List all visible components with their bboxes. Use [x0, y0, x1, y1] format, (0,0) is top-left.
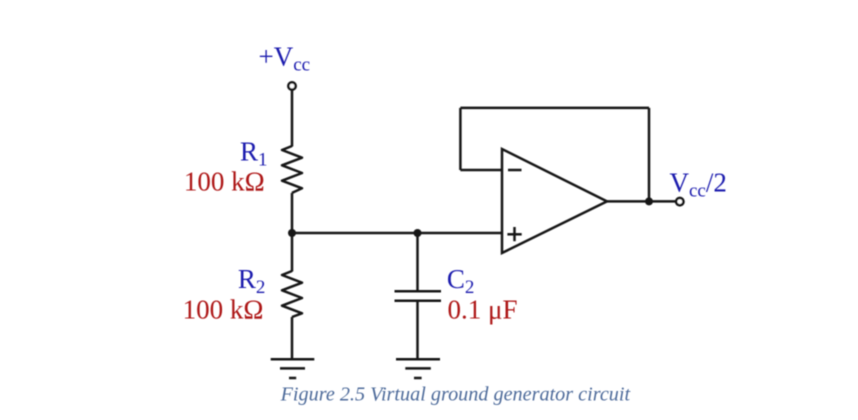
wire C2 to ground	[416, 301, 419, 359]
feedback wire right vertical	[648, 108, 651, 201]
svg-text:R1: R1	[240, 137, 268, 171]
wire Vcc terminal to R1	[291, 90, 294, 146]
svg-text:100 kΩ: 100 kΩ	[183, 294, 264, 324]
op-amp inverting input minus sign	[508, 169, 522, 172]
resistor R1	[282, 146, 302, 193]
svg-text:Vcc/2: Vcc/2	[670, 167, 727, 201]
svg-text:C2: C2	[447, 264, 475, 298]
svg-text:Figure 2.5 Virtual ground gene: Figure 2.5 Virtual ground generator circ…	[280, 383, 632, 405]
feedback wire left vertical	[459, 108, 462, 170]
resistor R2	[282, 271, 302, 317]
ground symbol at C2	[396, 359, 440, 378]
terminal +Vcc	[288, 82, 295, 89]
wire node A to R2	[291, 233, 294, 272]
svg-text:R2: R2	[238, 264, 266, 298]
wire node B to C2	[416, 233, 419, 291]
wire R2 to ground	[291, 317, 294, 359]
terminal Vcc/2 output	[676, 198, 683, 205]
wire R1 to node A	[291, 193, 294, 233]
wire node A to op-amp non-inverting input	[292, 232, 502, 235]
wire op-amp output	[607, 200, 676, 203]
capacitor C2	[395, 291, 442, 301]
svg-text:100 kΩ: 100 kΩ	[184, 167, 265, 197]
node A junction dot	[288, 229, 296, 237]
op-amp non-inverting input plus sign	[507, 227, 521, 241]
node C output junction dot	[645, 197, 653, 205]
svg-text:+Vcc: +Vcc	[259, 42, 311, 76]
wire inverting input	[460, 169, 502, 172]
node B junction dot	[414, 229, 422, 237]
feedback wire top horizontal	[460, 107, 649, 110]
svg-text:0.1 μF: 0.1 μF	[448, 294, 518, 324]
ground symbol at R2	[271, 359, 315, 378]
op-amp U1 triangle	[502, 149, 607, 253]
